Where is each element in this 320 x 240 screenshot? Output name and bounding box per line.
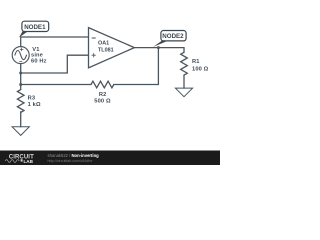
wire: R2 left lead from V1- node [21, 84, 91, 86]
svg-text:1 kΩ: 1 kΩ [28, 102, 41, 108]
node NODE1 [19, 21, 49, 37]
op-amp OA1 [89, 28, 135, 68]
svg-text:R3: R3 [28, 95, 36, 101]
junction: R2 left node [19, 83, 22, 86]
resistor R1 [181, 52, 188, 75]
CircuitLab logo [5, 155, 34, 164]
svg-text:OA1: OA1 [98, 41, 109, 47]
label OA1 / TL081 [98, 41, 114, 54]
label R1 value [192, 59, 209, 72]
svg-text:http://circuitlab.com/c64dhe: http://circuitlab.com/c64dhe [48, 159, 93, 163]
svg-text:LAB: LAB [24, 159, 34, 164]
svg-text:100 Ω: 100 Ω [192, 66, 209, 72]
junction: V1- / +input node [19, 72, 22, 75]
wire: R3 bottom lead [20, 112, 22, 127]
wire: V1- node to op-amp non-inverting input [21, 55, 89, 73]
wire: V1 bottom lead down to R3 [20, 64, 22, 90]
label R3 value [28, 95, 41, 108]
svg-text:TL081: TL081 [98, 47, 114, 53]
wire: NODE1 node to op-amp inverting input [21, 37, 89, 47]
svg-text:shanak622 / Non-inverting: shanak622 / Non-inverting [48, 153, 100, 158]
resistor R3 [17, 90, 24, 113]
wire: R1 bottom lead [183, 75, 185, 88]
svg-text:R1: R1 [192, 59, 200, 65]
node NODE2 [153, 31, 186, 47]
svg-text:500 Ω: 500 Ω [94, 98, 111, 104]
svg-text:R2: R2 [99, 92, 107, 98]
wire: op-amp output to R1 [134, 48, 184, 53]
svg-text:NODE1: NODE1 [24, 24, 46, 31]
svg-text:60 Hz: 60 Hz [31, 59, 47, 65]
ground below R3 [12, 127, 29, 136]
junction: output node [157, 46, 160, 49]
voltage source V1 [12, 47, 29, 64]
label R2 value [94, 92, 111, 105]
wire: R2 right lead / feedback to output node [114, 48, 159, 85]
resistor R2 [91, 81, 114, 88]
ground below R1 [175, 88, 192, 97]
footer text: author / title [48, 153, 100, 163]
svg-text:NODE2: NODE2 [162, 33, 184, 40]
label V1 value [31, 47, 47, 65]
footer bar [0, 151, 220, 166]
